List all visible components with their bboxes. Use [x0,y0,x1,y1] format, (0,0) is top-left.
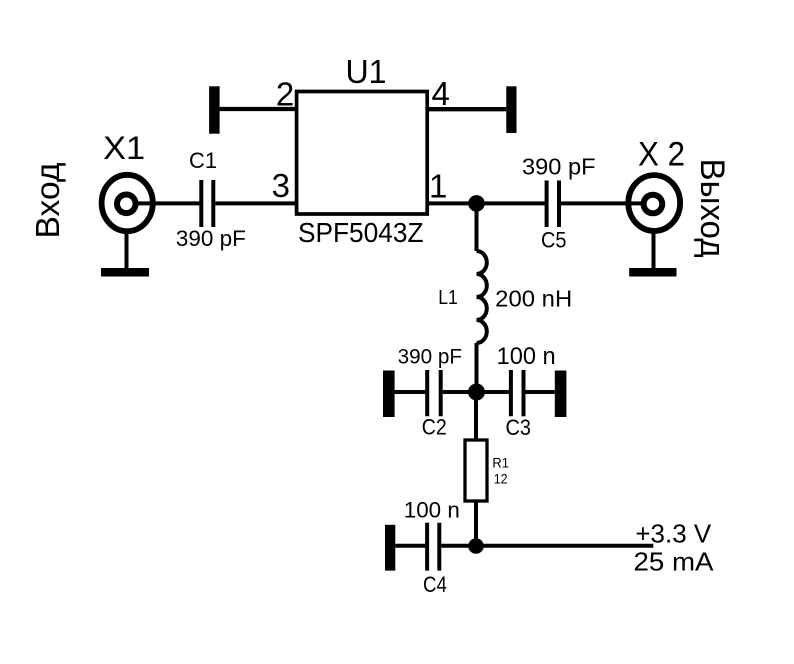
connector X1 [102,175,153,231]
svg-text:Выход: Выход [693,159,731,258]
svg-text:390 pF: 390 pF [522,153,596,179]
IC U1 body [297,92,428,215]
wire C1 to pin 3 [215,201,296,205]
capacitor C3 [511,370,524,416]
wire supply +3.3V [476,544,653,548]
terminator pin 4 [506,86,516,133]
wire C4 to junction 3 [441,544,476,548]
terminator C2 [383,371,395,418]
svg-text:2: 2 [276,75,294,112]
wire C3 to terminator [526,390,555,394]
svg-text:25 mA: 25 mA [634,547,715,577]
ground X2 [629,230,676,277]
svg-text:X 2: X 2 [638,135,685,173]
capacitor C2 [427,370,441,416]
svg-text:C3: C3 [506,415,532,440]
svg-text:Вход: Вход [30,163,67,239]
svg-text:L1: L1 [438,286,458,309]
capacitor C5 [547,181,559,228]
connector X2 [628,175,680,231]
svg-text:R1: R1 [492,455,509,471]
wire junction 2 to R1 [474,392,478,441]
svg-text:C5: C5 [541,228,567,253]
svg-text:1: 1 [429,167,447,204]
wire pin 4 [427,107,506,111]
node junction 3 [468,538,484,554]
wire L1 to junction 2 [475,343,479,392]
terminator pin 2 [209,86,220,133]
resistor R1 [465,440,487,501]
svg-text:C2: C2 [422,414,447,439]
wire C2 to junction 2 [443,390,477,394]
svg-text:C1: C1 [189,148,217,173]
inductor L1 [477,251,487,343]
svg-text:U1: U1 [346,54,387,91]
capacitor C1 [201,180,213,227]
ground X1 [101,230,149,277]
svg-text:200 nH: 200 nH [495,286,572,312]
svg-text:390 pF: 390 pF [176,226,246,251]
wire junction 1 down [475,203,479,251]
wire X1 to C1 [135,201,200,205]
svg-text:12: 12 [494,471,508,487]
svg-text:X1: X1 [103,130,145,166]
wire pin 1 [427,201,546,205]
node junction 1 [468,195,485,212]
svg-text:SPF5043Z: SPF5043Z [298,217,424,248]
capacitor C4 [427,523,439,571]
node junction 2 [468,384,485,401]
svg-text:390 pF: 390 pF [398,344,462,368]
wire pin 2 [220,107,297,111]
svg-text:4: 4 [432,75,450,112]
wire junction 2 to C3 [477,390,509,394]
terminator C3 [555,371,567,418]
svg-text:C4: C4 [423,572,447,597]
wire terminator to C4 [395,544,425,548]
wire R1 to junction 3 [474,501,478,546]
svg-text:+3.3 V: +3.3 V [635,519,711,549]
svg-text:3: 3 [272,167,290,204]
wire C5 to X2 [561,201,646,205]
terminator C4 [385,525,395,571]
svg-text:100 n: 100 n [404,498,460,523]
wire terminator to C2 [395,390,426,394]
svg-text:100 n: 100 n [497,343,556,370]
